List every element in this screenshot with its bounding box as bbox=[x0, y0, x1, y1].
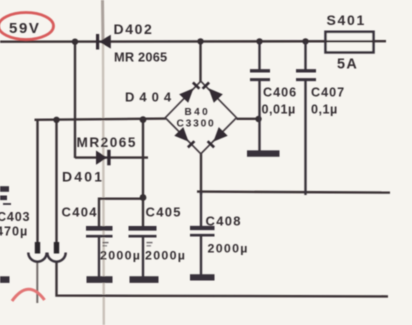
svg-text:MR 2065: MR 2065 bbox=[114, 50, 167, 65]
svg-text:C407: C407 bbox=[311, 86, 345, 100]
svg-text:59V: 59V bbox=[9, 20, 41, 37]
wire: second loop drop (x=56.5) bbox=[55, 120, 57, 244]
svg-text:C405: C405 bbox=[146, 205, 182, 220]
capacitor C405 bbox=[129, 228, 159, 279]
capacitor C403 edge stubs bbox=[0, 189, 11, 280]
wire: vertical x=143 from wire A down to C405 bbox=[142, 120, 144, 227]
diode D401 bbox=[96, 150, 111, 166]
wire: bridge right vertex to C406 bbox=[237, 118, 261, 120]
svg-text:C406: C406 bbox=[263, 86, 297, 100]
bridge diode top-right bbox=[203, 83, 223, 103]
svg-text:C3300: C3300 bbox=[177, 119, 216, 130]
bridge diode top-left bbox=[179, 83, 199, 103]
wire: left loop drop (x=37.5) bbox=[36, 120, 38, 244]
node: C406 top junction bbox=[256, 38, 262, 44]
red oval 59V bbox=[0, 13, 54, 40]
wire through fuse bbox=[326, 40, 375, 42]
svg-text:0,1µ: 0,1µ bbox=[311, 103, 338, 117]
svg-text:470µ: 470µ bbox=[0, 225, 28, 239]
node: bridge top junction bbox=[197, 38, 203, 44]
node: x143 junction on wire A bbox=[140, 116, 147, 123]
diode D402 bbox=[96, 34, 111, 50]
svg-text:0,01µ: 0,01µ bbox=[262, 103, 296, 117]
connector loop left bbox=[28, 253, 46, 262]
svg-text:D404: D404 bbox=[125, 90, 176, 105]
svg-text:S401: S401 bbox=[327, 12, 367, 28]
svg-text:C408: C408 bbox=[206, 214, 242, 229]
bridge diode bottom-right bbox=[208, 127, 228, 147]
wire: left loop faint continuation bbox=[36, 262, 38, 304]
capacitor C408 bbox=[190, 192, 215, 278]
node: rail-D401 branch junction bbox=[72, 39, 78, 45]
svg-text:2000µ: 2000µ bbox=[145, 249, 186, 263]
wire: negative rail (middle right) bbox=[197, 192, 390, 193]
wire: bottom return rail bbox=[57, 262, 389, 296]
red arc bottom left bbox=[12, 289, 45, 301]
connector loop right bbox=[47, 253, 65, 262]
wire: vertical from top rail down to D401 anode wire bbox=[74, 42, 76, 158]
wire: D401 horizontal bbox=[75, 156, 148, 158]
bridge diode bottom-left bbox=[174, 127, 194, 147]
node: C404 wire junction bbox=[140, 194, 147, 201]
wire: AC line A (left horizontal) bbox=[35, 119, 167, 120]
node: loop drop junction on wire A bbox=[53, 117, 59, 123]
svg-text:5A: 5A bbox=[337, 57, 358, 73]
wire: bridge bottom vertical bbox=[200, 153, 202, 195]
fuse S401 bbox=[326, 32, 374, 53]
capacitor C407 bbox=[296, 41, 316, 195]
wire: +59V top rail bbox=[0, 40, 386, 43]
node: C406 to bridge junction bbox=[255, 116, 261, 122]
scan fold line bbox=[101, 0, 105, 43]
svg-text:D402: D402 bbox=[114, 21, 154, 37]
svg-text:C403: C403 bbox=[0, 210, 30, 224]
svg-text:2000µ: 2000µ bbox=[100, 249, 141, 263]
node: C407 top junction bbox=[302, 38, 308, 44]
svg-text:MR2065: MR2065 bbox=[77, 135, 137, 150]
wire: bridge top vertical bbox=[199, 41, 201, 82]
svg-text:D401: D401 bbox=[62, 169, 104, 185]
capacitor C404 bbox=[86, 228, 113, 279]
bridge rectifier D404 outline bbox=[165, 81, 236, 154]
svg-text:B40: B40 bbox=[185, 107, 211, 118]
svg-text:C404: C404 bbox=[62, 205, 98, 220]
svg-text:2000µ: 2000µ bbox=[208, 242, 249, 256]
wire: C404 top connection bbox=[99, 199, 143, 227]
capacitor C406 bbox=[247, 41, 280, 153]
